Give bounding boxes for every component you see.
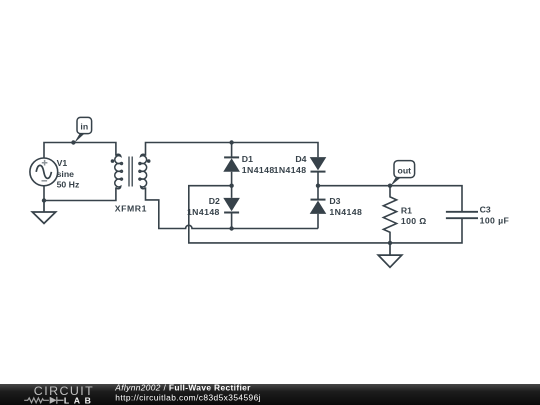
node junction dot D1 top — [229, 140, 233, 144]
svg-text:D1: D1 — [242, 154, 253, 164]
node junction dot V1 bottom — [42, 198, 46, 202]
node junction dot D2 bottom — [229, 226, 233, 230]
ground (below V1) — [32, 201, 55, 224]
R1 labels — [401, 205, 427, 226]
transformer polarity dot primary — [111, 159, 115, 163]
diode D4 — [310, 157, 327, 186]
C3 labels — [480, 205, 510, 226]
D2 labels — [187, 196, 220, 217]
svg-text:1N4148: 1N4148 — [187, 207, 220, 217]
transformer polarity dot secondary — [147, 159, 151, 163]
svg-text:1N4148: 1N4148 — [274, 165, 307, 175]
transformer core — [129, 157, 132, 187]
transformer XFMR1 — [115, 154, 147, 188]
svg-text:http://circuitlab.com/c83d5x35: http://circuitlab.com/c83d5x354596j — [115, 393, 261, 403]
svg-text:LAB: LAB — [64, 396, 96, 405]
node junction dot R1 bottom — [388, 241, 392, 245]
V1 minus mark — [42, 180, 48, 182]
D4 labels — [274, 154, 307, 175]
node junction dot D3-D4 — [316, 184, 320, 188]
diode D2 — [223, 186, 240, 229]
svg-text:R1: R1 — [401, 205, 412, 215]
node in junction dot — [71, 140, 75, 144]
V1 plus mark — [42, 160, 48, 166]
secondary winding — [139, 154, 147, 188]
resistor R1 — [383, 186, 396, 243]
node out junction dot — [388, 184, 392, 188]
ground (below R1) — [378, 243, 402, 267]
svg-text:C3: C3 — [480, 205, 491, 215]
wire middle rail right from D3-D4 node to out and C3 top — [318, 186, 462, 212]
capacitor C3 — [446, 212, 478, 218]
svg-text:V1: V1 — [57, 158, 68, 168]
footer bar — [0, 384, 540, 405]
svg-text:Aflynn2002 / Full-Wave Rectifi: Aflynn2002 / Full-Wave Rectifier — [114, 383, 251, 393]
D3 labels — [329, 196, 362, 217]
wire V1 bottom loop (V1 bottom lead, bottom rail, primary bottom pin) — [44, 186, 116, 201]
V1 value labels — [57, 158, 80, 190]
svg-text:100 µF: 100 µF — [480, 215, 510, 225]
logo diode symbol — [50, 397, 57, 404]
diode D1 — [223, 143, 240, 186]
svg-text:1N4148: 1N4148 — [242, 165, 275, 175]
svg-text:out: out — [398, 166, 412, 176]
svg-text:XFMR1: XFMR1 — [115, 204, 147, 214]
node junction dot D1-D2 — [229, 184, 233, 188]
svg-text:in: in — [80, 122, 88, 132]
diode D3 — [310, 186, 327, 229]
net label in — [74, 117, 91, 143]
wire secondary top pin and top rail to D4 — [146, 143, 319, 158]
D1 labels — [242, 154, 275, 175]
svg-text:1N4148: 1N4148 — [329, 207, 362, 217]
svg-text:D3: D3 — [329, 196, 340, 206]
svg-text:100 Ω: 100 Ω — [401, 216, 427, 226]
wire in rail (V1 top lead, top-left rail, primary top pin) — [44, 143, 116, 158]
voltage source V1 — [30, 158, 58, 186]
svg-text:50 Hz: 50 Hz — [57, 180, 80, 190]
wire middle rail left from D1-D2 node, drop at x=189, bottom rail to C3 — [189, 186, 462, 243]
primary winding — [115, 154, 123, 188]
svg-text:sine: sine — [57, 169, 75, 179]
svg-text:D4: D4 — [295, 154, 306, 164]
svg-text:D2: D2 — [209, 196, 220, 206]
wire secondary bottom run with hop over x=189 — [146, 187, 319, 228]
net label out — [391, 161, 415, 186]
logo resistor squiggle — [24, 398, 49, 403]
